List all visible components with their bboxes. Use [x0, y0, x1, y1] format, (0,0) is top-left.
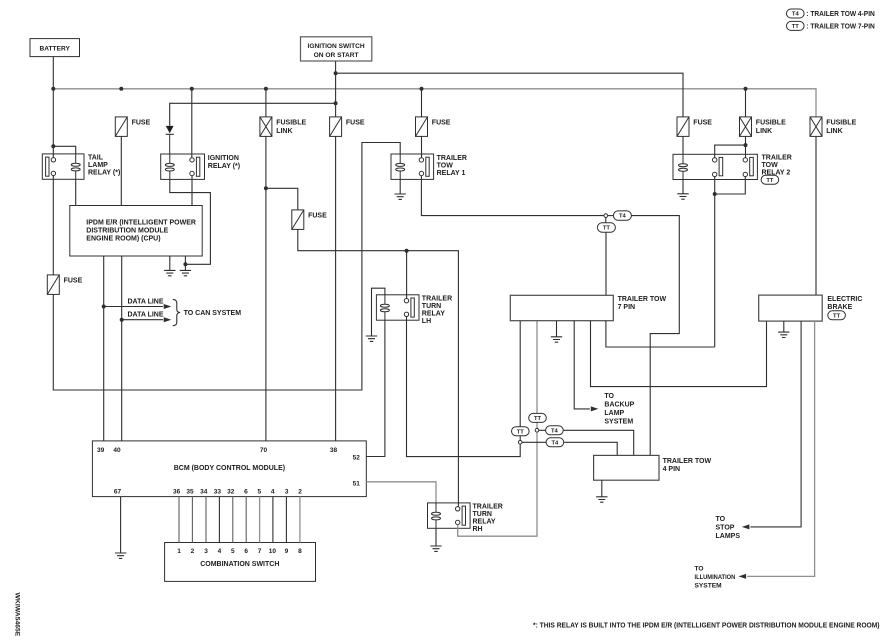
svg-text:T4: T4 — [792, 12, 800, 18]
connector junction J0 — [604, 214, 608, 218]
svg-text:35: 35 — [186, 488, 194, 495]
svg-text:TURN: TURN — [473, 511, 492, 518]
svg-text:TT: TT — [517, 429, 525, 435]
wire electric brake to ground G8 — [783, 321, 785, 332]
oval T4 (to 4 pin lower) — [546, 438, 564, 447]
svg-text:DISTRIBUTION MODULE: DISTRIBUTION MODULE — [86, 228, 168, 235]
svg-text:LAMP: LAMP — [88, 162, 108, 169]
wire J0 down to TT oval — [605, 217, 607, 223]
svg-text:TRAILER: TRAILER — [473, 503, 503, 510]
svg-text:FUSE: FUSE — [64, 277, 83, 284]
connector junction J2 — [535, 428, 539, 432]
oval TT (7 pin wire A) — [512, 427, 530, 436]
svg-text:6: 6 — [244, 488, 248, 495]
svg-text:ILLUMINATION: ILLUMINATION — [695, 574, 736, 581]
wire battery to bus — [52, 57, 54, 89]
svg-text:TURN: TURN — [422, 303, 441, 310]
wire tail lamp relay contact to fuse F2 — [52, 176, 54, 275]
junction data line 1 — [102, 305, 106, 309]
data line 2 arrow — [122, 319, 163, 321]
wire TT oval to trailer tow 7 pin — [605, 232, 607, 295]
junction bus/fuse F1 — [119, 87, 123, 91]
svg-text:BATTERY: BATTERY — [39, 45, 70, 52]
ground G1 (IPDM) — [164, 270, 175, 275]
fuse F1 — [115, 117, 127, 136]
svg-text:FUSIBLE: FUSIBLE — [826, 119, 856, 126]
wire 7 pin to junction J2 (grey) — [536, 321, 538, 429]
svg-text:6: 6 — [244, 548, 248, 555]
junction IPDM ground — [183, 262, 187, 266]
svg-text:IPDM E/R (INTELLIGENT POWER: IPDM E/R (INTELLIGENT POWER — [86, 220, 196, 227]
wire BCM pin 67 to ground G10 — [120, 497, 122, 553]
svg-text:TO: TO — [716, 516, 726, 523]
wire fuse F3 to relay 1 contact — [421, 136, 423, 157]
wire branch to fuse F6 — [266, 188, 298, 210]
wire bus to ignition relay contact — [191, 89, 193, 158]
wire IPDM to BCM pin 40 — [121, 256, 123, 441]
svg-text:8: 8 — [298, 548, 302, 555]
wire relay LH coil to BCM pin 52 — [366, 320, 385, 456]
svg-text:TRAILER TOW: TRAILER TOW — [663, 458, 712, 465]
wire fuse F6 to trailer turn relay RH contact — [298, 229, 459, 507]
junction bus/fuse F3 — [420, 87, 424, 91]
relay - TRAILER TOW RELAY 1 — [391, 154, 434, 179]
curly brace to CAN — [173, 299, 180, 325]
wire ignition feed to diode — [170, 103, 336, 126]
svg-text:ENGINE ROOM) (CPU): ENGINE ROOM) (CPU) — [86, 236, 160, 243]
wire fusible link FL3 to electric brake — [815, 136, 817, 295]
svg-text:LINK: LINK — [276, 128, 292, 135]
diode D1 — [166, 126, 174, 154]
wire branch to tail lamp relay coil — [53, 146, 75, 154]
wire BCM to combination switch pin 5 — [232, 497, 234, 543]
wire T4 line to trailer tow 4 pin — [631, 216, 679, 456]
svg-text:TT: TT — [534, 416, 542, 422]
svg-text:TO: TO — [604, 393, 614, 400]
svg-text:70: 70 — [260, 447, 268, 454]
svg-text:SYSTEM: SYSTEM — [695, 583, 723, 590]
svg-text:1: 1 — [177, 548, 181, 555]
wire relay 2 contact 2 output — [715, 177, 746, 194]
svg-text:ON OR START: ON OR START — [314, 52, 359, 59]
wire fuse F4 to BCM pin 38 — [335, 136, 337, 441]
wire ignition relay coil loop to ground — [170, 179, 211, 264]
wire bus to tail lamp relay contact — [52, 89, 54, 158]
ground G3 (relay 1) — [395, 194, 406, 199]
connector junction J1 — [518, 441, 522, 445]
wire fuse F2 to trailer tow relay 1 coil — [53, 143, 400, 391]
wire BCM to combination switch pin 2 — [191, 497, 193, 543]
ground G4 (relay 2) — [677, 194, 688, 199]
svg-text:RELAY 1: RELAY 1 — [437, 170, 466, 177]
junction to trailer turn relay LH — [405, 249, 409, 253]
svg-text:7 PIN: 7 PIN — [618, 304, 636, 311]
trailer tow 7 pin box — [510, 295, 613, 320]
wire relay LH coil to ground G5 — [372, 288, 385, 336]
wire T4 upper to trailer tow 4 pin — [563, 430, 634, 455]
svg-text:TT: TT — [833, 313, 841, 319]
svg-text:4: 4 — [218, 548, 222, 555]
wire IPDM to ground G1 — [169, 256, 171, 270]
svg-text:IGNITION SWITCH: IGNITION SWITCH — [308, 43, 365, 50]
wire BCM to combination switch pin 6 — [245, 497, 247, 543]
junction ignition/diode line — [334, 101, 338, 105]
svg-text:RH: RH — [473, 526, 483, 533]
svg-text:38: 38 — [330, 447, 338, 454]
wire J2 to T4 oval — [539, 429, 546, 431]
relay - TRAILER TURN RELAY LH — [376, 295, 419, 320]
fusible link FL1 — [260, 117, 272, 136]
fuse F3 (trailer tow relay 1) — [416, 117, 428, 136]
wire 7 pin to electric brake — [591, 321, 767, 387]
electric brake box — [759, 295, 823, 321]
wire J0 to T4 oval — [608, 215, 614, 217]
svg-text:DATA LINE: DATA LINE — [128, 298, 164, 305]
wire tail lamp relay coil to IPDM — [75, 179, 77, 205]
wire BCM to combination switch pin 4 — [218, 497, 220, 543]
wire BCM to combination switch pin 10 — [299, 497, 301, 543]
svg-text:2: 2 — [191, 548, 195, 555]
wire IPDM to ground G2 — [184, 256, 186, 270]
oval TT (7 pin wire B) — [529, 413, 547, 422]
wire relay 2 contact 1 output down — [714, 177, 716, 347]
svg-text:9: 9 — [285, 548, 289, 555]
svg-text:STOP: STOP — [716, 525, 735, 532]
svg-text:34: 34 — [200, 488, 208, 495]
svg-text:10: 10 — [269, 548, 277, 555]
fuse F4 (ignition) — [330, 117, 342, 136]
wire bus to fuse F3 — [421, 89, 423, 117]
svg-text:FUSE: FUSE — [693, 119, 712, 126]
svg-text:FUSE: FUSE — [346, 119, 365, 126]
oval T4 (to 4 pin upper) — [546, 426, 564, 435]
junction relay 2 outputs — [713, 192, 717, 196]
svg-text:T4: T4 — [551, 428, 559, 434]
svg-text:32: 32 — [227, 488, 235, 495]
ignition switch box — [301, 37, 372, 61]
ground G7 (7 pin) — [551, 337, 562, 342]
svg-text:TO CAN SYSTEM: TO CAN SYSTEM — [184, 310, 242, 317]
svg-text:: TRAILER TOW 4-PIN: : TRAILER TOW 4-PIN — [806, 11, 875, 18]
junction FL1/fuse F6 — [264, 186, 268, 190]
svg-text:RELAY: RELAY — [422, 310, 445, 317]
svg-text:4 PIN: 4 PIN — [663, 466, 681, 473]
svg-text:39: 39 — [97, 447, 105, 454]
svg-text:LAMPS: LAMPS — [716, 533, 741, 540]
wire electric brake to illumination (grey) — [747, 321, 815, 576]
wire junction to relay LH contact — [406, 251, 408, 299]
svg-text:TO: TO — [695, 566, 704, 573]
svg-text:3: 3 — [285, 488, 289, 495]
wire relay RH contact to junction J2 (grey) — [458, 432, 537, 536]
wire bus to fusible link FL2 — [745, 89, 747, 117]
oval TT (to 7 pin) — [597, 223, 615, 232]
IPDM E/R box — [70, 206, 202, 257]
wire ignition switch down to fuse F4 — [335, 61, 337, 117]
ground G2 (IPDM) — [180, 270, 191, 275]
oval TT (electric brake) — [828, 311, 846, 320]
trailer tow 4 pin box — [594, 455, 659, 480]
svg-text:FUSE: FUSE — [432, 119, 451, 126]
fusible link FL2 — [740, 117, 752, 136]
svg-text:TOW: TOW — [762, 162, 779, 169]
svg-text:BCM (BODY CONTROL MODULE): BCM (BODY CONTROL MODULE) — [174, 465, 285, 472]
svg-text:5: 5 — [231, 548, 235, 555]
wire BCM to combination switch pin 3 — [205, 497, 207, 543]
svg-text:LH: LH — [422, 318, 431, 325]
svg-text:36: 36 — [173, 488, 181, 495]
svg-text:T4: T4 — [619, 214, 627, 220]
svg-text:LINK: LINK — [756, 128, 772, 135]
ground G10 (BCM) — [115, 553, 126, 558]
svg-text:T4: T4 — [552, 440, 560, 446]
wire relay RH coil to ground G6 — [435, 528, 437, 546]
svg-text:7: 7 — [258, 548, 262, 555]
ground G8 (electric brake) — [778, 332, 789, 337]
wire relay 1 output to T4 junction — [421, 176, 604, 216]
svg-text:RELAY: RELAY — [473, 518, 496, 525]
svg-text:2: 2 — [298, 488, 302, 495]
fuse F6 — [292, 210, 304, 230]
svg-text:TAIL: TAIL — [88, 155, 104, 162]
svg-text:33: 33 — [214, 488, 222, 495]
junction tail lamp relay branch — [51, 144, 55, 148]
wire BCM to combination switch pin 7 — [259, 497, 261, 543]
wire ignition feed to fuse F5 — [336, 73, 683, 117]
svg-text:FUSIBLE: FUSIBLE — [756, 119, 786, 126]
wire 7 pin to ground G7 — [556, 321, 558, 337]
wire electric brake to stop lamps — [750, 321, 801, 527]
junction bus/fusible link FL2 — [744, 87, 748, 91]
wire BCM to combination switch pin 1 — [178, 497, 180, 543]
relay - TRAILER TURN RELAY RH — [428, 503, 471, 528]
wire 7 pin to backup lamp system — [574, 321, 590, 409]
junction bus/fusible link FL1 — [264, 87, 268, 91]
data line 1 arrow — [104, 306, 163, 308]
svg-text:BACKUP: BACKUP — [604, 402, 634, 409]
legend TT oval — [787, 21, 805, 30]
junction battery/bus — [51, 87, 55, 91]
wire bus to fusible link FL1 — [265, 89, 267, 117]
junction relay 2 contact feed — [744, 143, 748, 147]
svg-text:: TRAILER TOW 7-PIN: : TRAILER TOW 7-PIN — [806, 24, 875, 31]
relay - IGNITION RELAY — [161, 154, 205, 179]
svg-text:ELECTRIC: ELECTRIC — [827, 296, 862, 303]
svg-text:COMBINATION SWITCH: COMBINATION SWITCH — [200, 561, 279, 568]
svg-text:67: 67 — [114, 488, 122, 495]
wire BCM to combination switch pin 8 — [272, 497, 274, 543]
svg-text:BRAKE: BRAKE — [827, 304, 852, 311]
svg-text:52: 52 — [353, 454, 361, 461]
wire 4 pin to ground G9 — [601, 480, 603, 496]
junction data line 2 — [120, 318, 124, 322]
svg-text:IGNITION: IGNITION — [208, 155, 239, 162]
svg-text:51: 51 — [353, 480, 361, 487]
svg-text:3: 3 — [204, 548, 208, 555]
svg-text:RELAY (*): RELAY (*) — [208, 163, 240, 170]
wire BCM to combination switch pin 9 — [285, 497, 287, 543]
svg-text:FUSE: FUSE — [132, 119, 151, 126]
wire 7 pin to trailer tow relay 2 output — [606, 321, 715, 347]
svg-text:TRAILER: TRAILER — [422, 295, 452, 302]
svg-text:TT: TT — [603, 226, 611, 232]
svg-text:LAMP: LAMP — [604, 410, 624, 417]
svg-text:DATA LINE: DATA LINE — [128, 312, 164, 319]
junction bus/ignition relay — [190, 87, 194, 91]
svg-text:4: 4 — [271, 488, 275, 495]
svg-text:TOW: TOW — [437, 162, 454, 169]
wire fusible link FL1 to BCM pin 70 — [265, 136, 267, 441]
relay - TAIL LAMP RELAY — [42, 154, 84, 179]
wire T4 lower to trailer tow 4 pin — [564, 442, 618, 455]
combination switch box — [165, 543, 316, 582]
svg-text:FUSIBLE: FUSIBLE — [276, 119, 306, 126]
svg-text:WKIWA5465E: WKIWA5465E — [14, 593, 21, 637]
ground G6 (relay RH) — [430, 546, 441, 551]
wire IPDM to BCM pin 39 — [103, 256, 105, 441]
fuse F2 — [47, 275, 59, 295]
oval T4 (relay 1 output) — [613, 211, 631, 220]
svg-text:RELAY (*): RELAY (*) — [88, 170, 120, 177]
svg-text:TT: TT — [766, 178, 774, 184]
relay - TRAILER TOW RELAY 2 — [673, 154, 757, 179]
fuse F5 (trailer tow relay 2) — [677, 117, 689, 136]
svg-text:SYSTEM: SYSTEM — [604, 419, 633, 426]
ground G5 (relay LH) — [366, 336, 377, 341]
svg-text:TT: TT — [792, 24, 800, 30]
svg-text:TRAILER TOW: TRAILER TOW — [618, 296, 667, 303]
svg-text:TRAILER: TRAILER — [762, 155, 792, 162]
svg-text:5: 5 — [257, 488, 261, 495]
wire FL2 to relay 2 contact 2 — [745, 136, 747, 157]
battery box — [30, 39, 80, 57]
oval TT (relay 2) — [761, 175, 779, 184]
svg-text:TRAILER: TRAILER — [437, 155, 467, 162]
wire ignition relay contact to IPDM — [191, 176, 193, 206]
wire feed to relay 2 contact 1 — [715, 145, 746, 158]
wire relay LH contact to junction J1 — [407, 316, 521, 456]
wire relay 1 coil to ground G3 — [399, 179, 401, 193]
wire BCM pin 51 to relay RH coil (grey) — [366, 482, 436, 503]
fusible link FL3 — [810, 117, 822, 136]
wire 7 pin to junction J1 (wire A) — [519, 321, 521, 441]
wire fuse F1 to IPDM — [120, 136, 122, 205]
bus wire from battery (grey) — [53, 89, 816, 117]
BCM box — [92, 441, 366, 497]
svg-text:*: THIS RELAY IS BUILT INTO TH: *: THIS RELAY IS BUILT INTO THE IPDM E/R… — [533, 622, 880, 629]
wire fuse F5 to relay 2 coil — [682, 136, 684, 154]
ground G9 (4 pin) — [596, 497, 607, 502]
svg-text:LINK: LINK — [826, 128, 842, 135]
junction ignition feed — [334, 71, 338, 75]
wire J1 to T4 oval — [522, 441, 546, 443]
legend T4 oval — [787, 9, 805, 18]
wire relay 2 coil to ground G4 — [682, 180, 684, 194]
svg-text:FUSE: FUSE — [308, 212, 327, 219]
svg-text:40: 40 — [113, 447, 121, 454]
